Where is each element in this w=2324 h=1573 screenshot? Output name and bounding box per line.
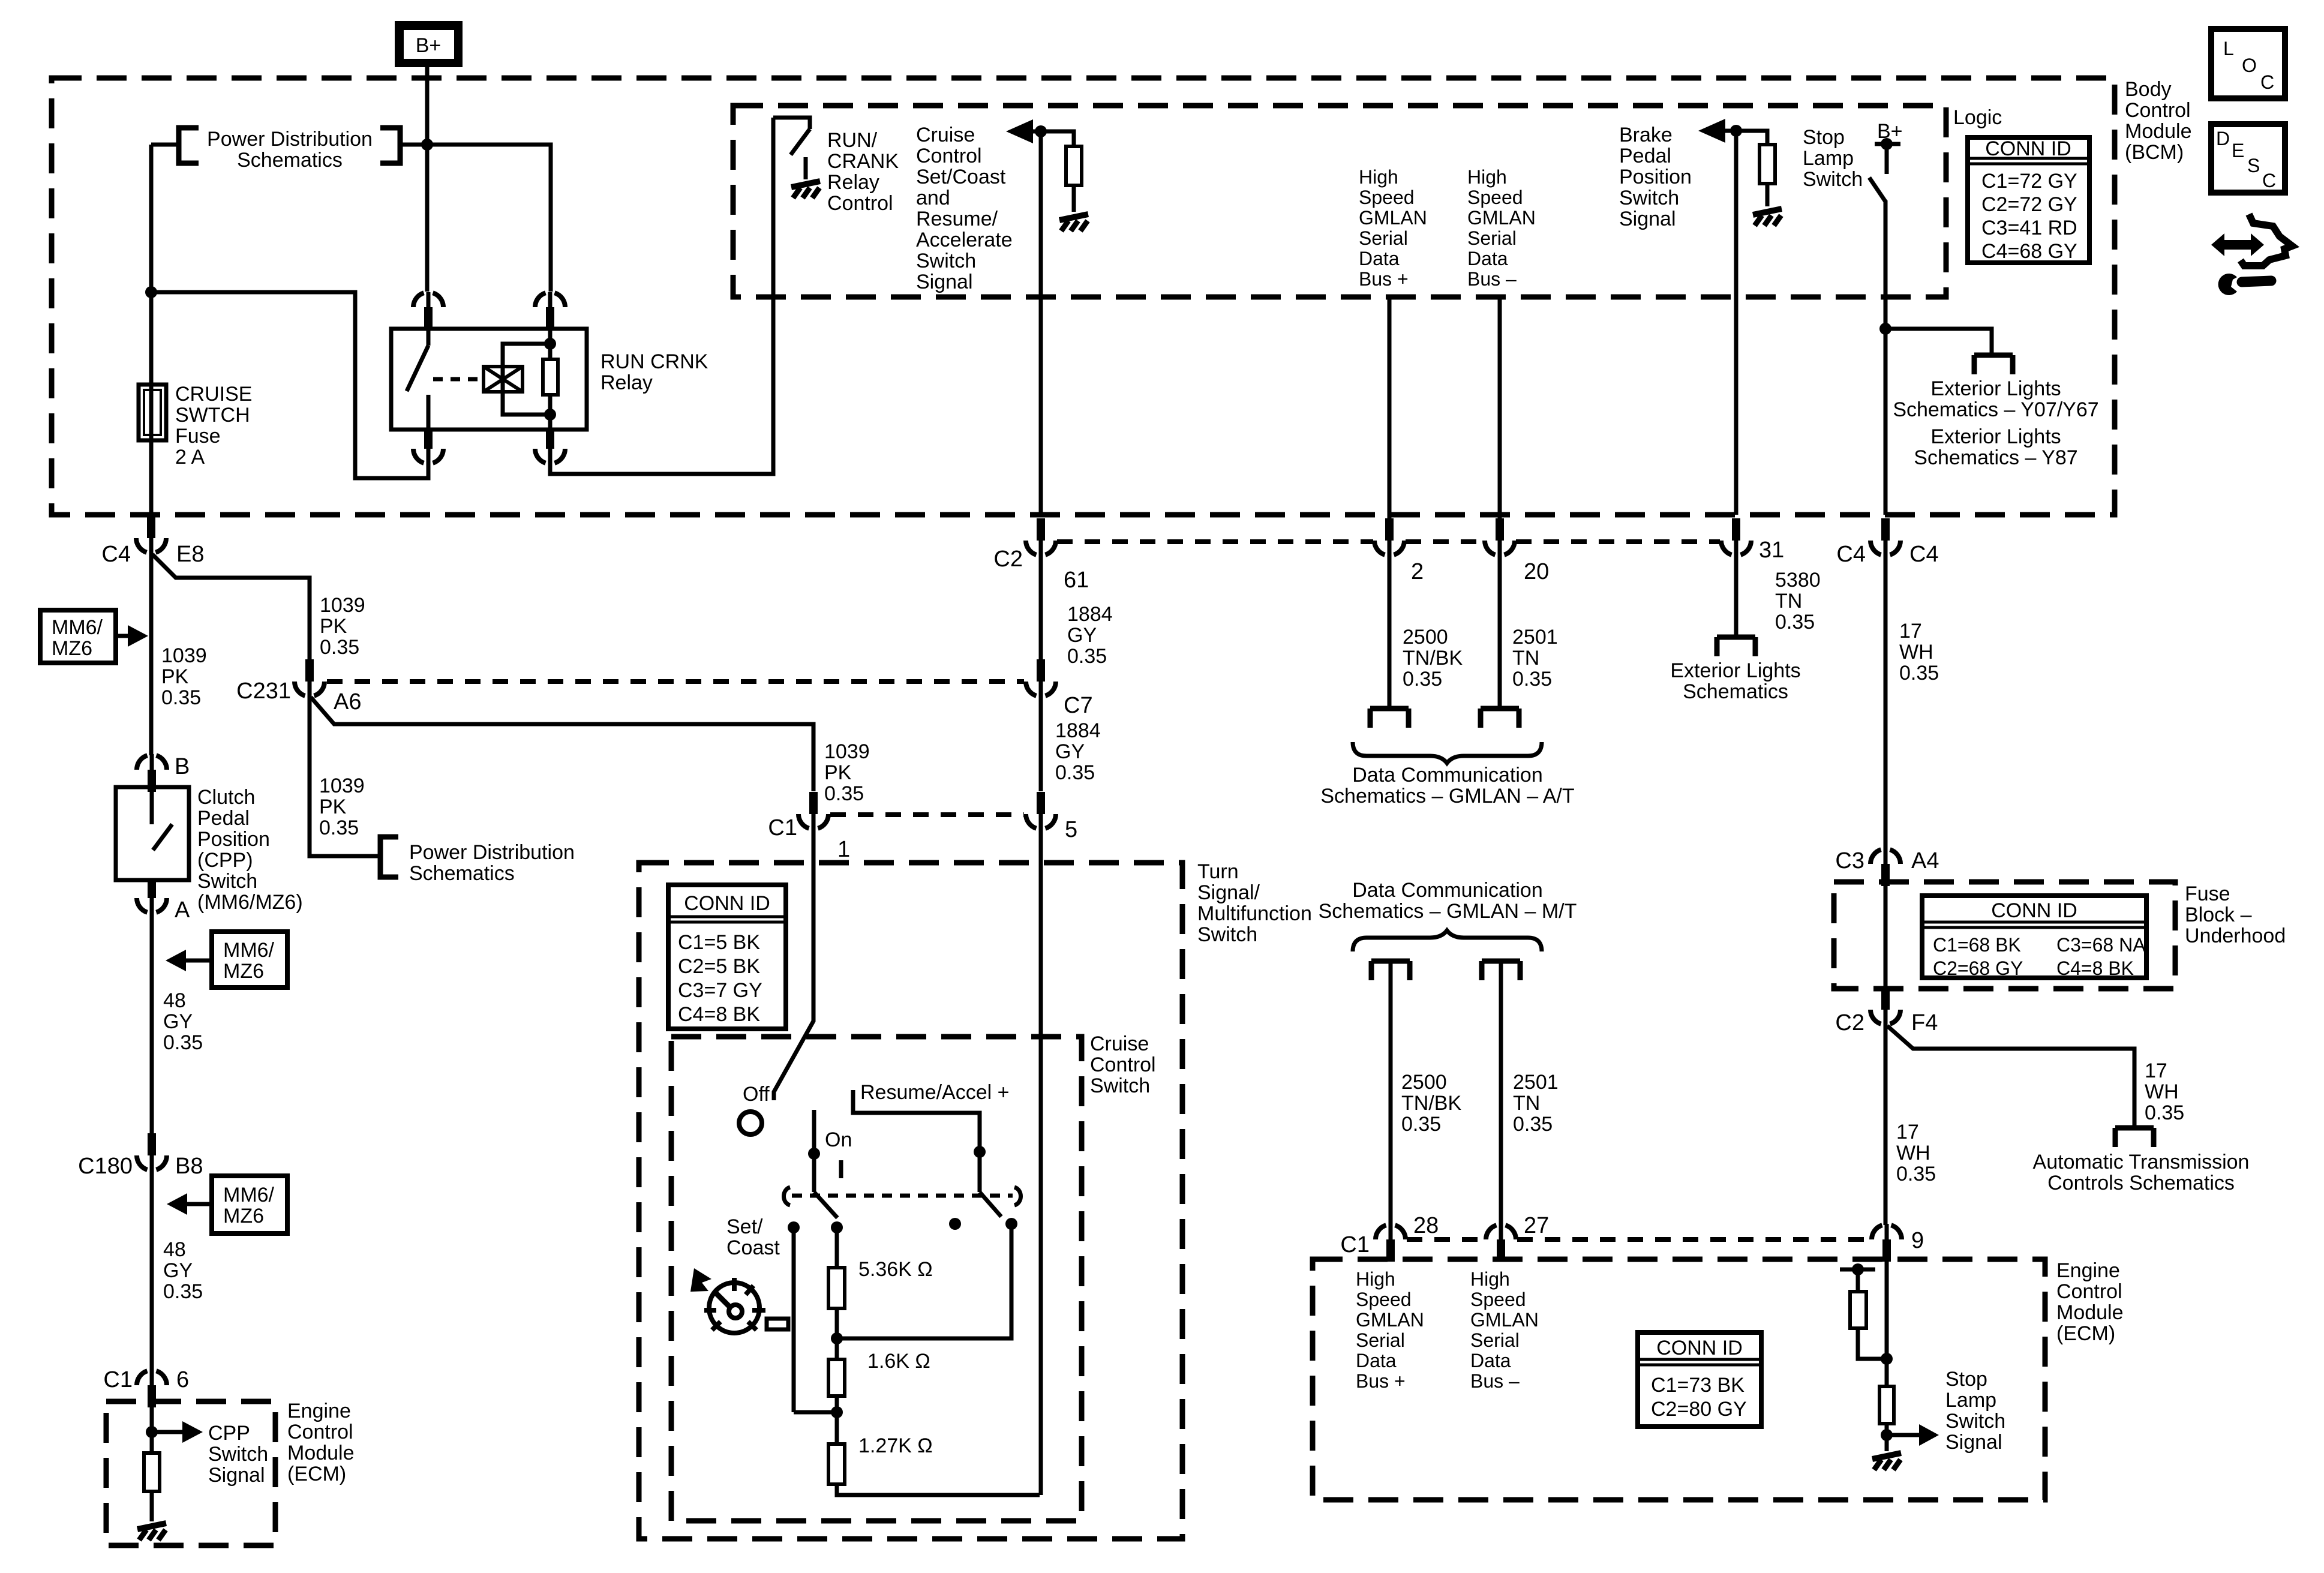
ECM CONN ID table: [1638, 1332, 1761, 1427]
connector B (CPP): [137, 754, 167, 792]
BCM outer dashed box: [52, 78, 2115, 515]
switch coupler dashed: [792, 1194, 1013, 1198]
wire C2 61 down to C7: [1039, 553, 1043, 659]
bracket exterior lights schematics: [1717, 637, 1755, 656]
svg-text:Controls Schematics: Controls Schematics: [2047, 1172, 2235, 1194]
svg-text:Serial: Serial: [1467, 227, 1517, 249]
svg-text:D: D: [2216, 128, 2230, 149]
svg-text:Exterior Lights: Exterior Lights: [1930, 377, 2061, 400]
connector row thin dashed line (BCM bottom): [1057, 539, 1720, 544]
svg-text:Cruise: Cruise: [916, 124, 975, 146]
wire 1.6K tap to right: [837, 1224, 1011, 1338]
ECM pull-up resistor: [1850, 1292, 1887, 1359]
svg-text:Logic: Logic: [1953, 106, 2002, 129]
svg-text:5: 5: [1065, 817, 1077, 842]
wire A6 diagonal to pin 1 column: [311, 697, 813, 791]
svg-text:Speed: Speed: [1467, 187, 1523, 208]
MM6/MZ6 box 1: [40, 610, 116, 663]
label Stop Lamp Switch Signal: [1945, 1368, 2005, 1454]
label Cruise Control Set/Coast and Resume/ Accelerate Switch Signal: [916, 124, 1013, 293]
svg-text:GY: GY: [163, 1010, 193, 1033]
svg-text:B8: B8: [175, 1154, 203, 1179]
wire C2 F4 down to pin 9: [1885, 1025, 1887, 1225]
junction dot 1.6K top: [831, 1332, 843, 1344]
wire Set/Coast contact down: [792, 1227, 796, 1412]
svg-text:Bus –: Bus –: [1467, 268, 1517, 290]
svg-text:and: and: [916, 187, 950, 209]
brake pedal arrow: [1698, 119, 1736, 143]
wire pin 20 down: [1498, 553, 1502, 709]
junction dot fuse column: [145, 286, 157, 298]
wire GMLAN bus + from logic box: [1388, 298, 1392, 518]
stop lamp switch signal arrow: [1887, 1424, 1939, 1446]
wire relay coil to RUN/CRANK control: [550, 118, 773, 474]
svg-text:48: 48: [163, 989, 186, 1012]
label 1039 PK 0.35 (pin1): [824, 740, 870, 805]
label 2500 TN/BK 0.35 (M/T): [1401, 1071, 1461, 1136]
svg-text:0.35: 0.35: [163, 1280, 203, 1303]
svg-text:Control: Control: [287, 1421, 353, 1443]
Resume/Accel wire: [853, 1090, 986, 1192]
relay coil box: [484, 367, 523, 392]
wire pin 5 column through cruise box: [1039, 829, 1043, 1495]
label Brake Pedal Position Switch Signal: [1619, 124, 1692, 230]
inline connector dashed C231 to C7: [327, 679, 1024, 684]
svg-text:0.35: 0.35: [1401, 1113, 1441, 1136]
svg-text:TN: TN: [1513, 1092, 1540, 1115]
svg-text:MM6/: MM6/: [223, 1184, 275, 1206]
BCM inner logic dashed box: [733, 106, 1946, 297]
svg-text:Power Distribution: Power Distribution: [409, 841, 575, 864]
svg-text:0.35: 0.35: [1067, 645, 1107, 668]
bracket right Power Distribution Schematics: [380, 128, 400, 163]
svg-text:C: C: [2262, 170, 2276, 191]
svg-text:C7: C7: [1064, 693, 1093, 718]
svg-text:1039: 1039: [161, 644, 207, 667]
label RUN CRNK Relay: [600, 350, 708, 394]
svg-text:Bus +: Bus +: [1359, 268, 1409, 290]
svg-text:O: O: [2242, 55, 2257, 76]
svg-text:1: 1: [837, 837, 850, 862]
cruise resistor ground: [1059, 214, 1088, 231]
ECM ground: [1872, 1453, 1901, 1470]
svg-text:0.35: 0.35: [161, 686, 201, 709]
svg-text:2 A: 2 A: [175, 446, 205, 469]
svg-text:Position: Position: [197, 828, 270, 851]
svg-text:RUN/: RUN/: [827, 129, 878, 152]
label Cruise Control Switch: [1090, 1032, 1156, 1097]
svg-text:Engine: Engine: [287, 1400, 351, 1422]
underbrace Data Communication A/T: [1353, 742, 1542, 763]
svg-text:Multifunction: Multifunction: [1197, 902, 1312, 925]
svg-text:Bus +: Bus +: [1356, 1370, 1406, 1392]
bracket M/T bus -: [1482, 961, 1520, 980]
svg-text:Resume/: Resume/: [916, 208, 998, 230]
svg-text:1039: 1039: [824, 740, 870, 763]
overbrace Data Communication M/T: [1353, 930, 1542, 951]
svg-text:C2: C2: [993, 547, 1023, 572]
svg-text:B: B: [175, 754, 190, 779]
svg-text:0.35: 0.35: [824, 782, 864, 805]
svg-text:CPP: CPP: [208, 1422, 250, 1445]
svg-text:C2=5 BK: C2=5 BK: [678, 955, 760, 978]
junction dot ECM: [1881, 1353, 1893, 1365]
svg-text:1884: 1884: [1067, 603, 1113, 626]
wire B8 down to C1 6: [150, 1170, 154, 1371]
wire E8 diagonal branch to C231: [152, 554, 310, 659]
wire pin1 down to Off: [774, 829, 813, 1100]
svg-text:CONN ID: CONN ID: [1991, 899, 2077, 922]
svg-text:Block –: Block –: [2185, 903, 2252, 926]
svg-text:Lamp: Lamp: [1803, 147, 1854, 170]
relay coil bracket: [503, 344, 550, 415]
label Exterior Lights Schematics Y07/Y67 Y87: [1893, 377, 2098, 469]
svg-text:Cruise: Cruise: [1090, 1032, 1149, 1055]
svg-text:Schematics – GMLAN – M/T: Schematics – GMLAN – M/T: [1319, 900, 1577, 923]
svg-text:WH: WH: [1899, 641, 1933, 664]
svg-text:6: 6: [176, 1367, 189, 1392]
svg-text:Serial: Serial: [1470, 1329, 1520, 1351]
svg-text:Module: Module: [2125, 120, 2192, 143]
connector C4 C4: [1870, 518, 1900, 556]
wire brake signal down to pin 31: [1734, 131, 1739, 515]
connector pin 31: [1721, 518, 1751, 556]
svg-text:C1: C1: [103, 1367, 133, 1392]
svg-text:Set/Coast: Set/Coast: [916, 166, 1006, 188]
gauge icon arrow: [690, 1268, 711, 1292]
relay coupler dashed link: [433, 377, 484, 382]
svg-text:C4=68 GY: C4=68 GY: [1981, 240, 2077, 263]
wire pin 9 down: [1885, 1262, 1889, 1386]
svg-text:(ECM): (ECM): [287, 1463, 346, 1485]
svg-text:Control: Control: [2125, 99, 2191, 122]
turn signal multifunction switch dashed box: [639, 863, 1182, 1539]
bracket left Power Distribution Schematics: [179, 128, 199, 163]
label 2501 TN 0.35 (A/T): [1512, 626, 1558, 691]
label Body Control Module (BCM): [2125, 78, 2192, 164]
svg-text:0.35: 0.35: [1775, 611, 1815, 634]
contact dot Set/Coast: [788, 1221, 800, 1233]
svg-text:Signal: Signal: [1945, 1431, 2002, 1454]
wire F4 branch to automatic transmission: [1887, 1026, 2134, 1128]
wire C4 down to C3 A4: [1884, 553, 1888, 849]
svg-text:MZ6: MZ6: [52, 637, 92, 660]
svg-text:Schematics – Y07/Y67: Schematics – Y07/Y67: [1893, 398, 2098, 421]
svg-text:E: E: [2232, 140, 2244, 161]
svg-text:MZ6: MZ6: [223, 1205, 264, 1227]
MM6/MZ6 box 2: [212, 932, 287, 987]
wire C7 down to pin 5: [1039, 697, 1043, 791]
svg-text:C1=68 BK: C1=68 BK: [1933, 934, 2021, 956]
svg-text:High: High: [1356, 1268, 1395, 1290]
CPP ground: [137, 1523, 166, 1540]
svg-text:Off: Off: [743, 1083, 770, 1106]
B+ power terminal box: [395, 21, 463, 67]
CPP switch contact: [152, 787, 172, 850]
relay coil resistor: [543, 329, 558, 430]
svg-text:CONN ID: CONN ID: [1656, 1337, 1743, 1359]
connector pin 27: [1486, 1224, 1516, 1262]
svg-text:CRUISE: CRUISE: [175, 383, 252, 406]
wire between resistors 1: [835, 1308, 839, 1359]
svg-text:Switch: Switch: [1197, 923, 1257, 946]
wire junction to relay switch return: [151, 292, 428, 478]
svg-text:2500: 2500: [1403, 626, 1448, 649]
resistor 1.6K: [828, 1359, 845, 1396]
svg-text:0.35: 0.35: [1513, 1113, 1553, 1136]
svg-text:CONN ID: CONN ID: [1985, 137, 2071, 160]
svg-text:C1: C1: [768, 815, 797, 840]
svg-text:Lamp: Lamp: [1945, 1389, 1996, 1412]
svg-text:Signal: Signal: [208, 1464, 265, 1487]
connector C7: [1026, 659, 1056, 697]
svg-text:17: 17: [1899, 620, 1922, 643]
brake pull-up resistor: [1736, 131, 1775, 206]
wire B+ down to relay switch pin: [425, 145, 430, 292]
brake resistor ground: [1753, 209, 1782, 226]
svg-text:Relay: Relay: [600, 371, 653, 394]
wire B+ down to junction: [425, 67, 430, 145]
label Turn Signal/ Multifunction Switch: [1197, 860, 1312, 946]
svg-text:CONN ID: CONN ID: [684, 892, 770, 915]
svg-text:Pedal: Pedal: [197, 807, 250, 830]
svg-text:GY: GY: [1067, 624, 1097, 647]
svg-text:Switch: Switch: [1803, 168, 1863, 191]
bracket exterior lights: [1974, 355, 2013, 374]
wire inside ECM left: [150, 1407, 154, 1453]
svg-text:Switch: Switch: [208, 1443, 268, 1466]
svg-text:0.35: 0.35: [319, 816, 359, 839]
ECM internal supply rail: [1840, 1263, 1875, 1292]
label Automatic Transmission Controls Schematics: [2033, 1151, 2250, 1194]
cruise control switch dashed box: [671, 1037, 1082, 1521]
svg-text:31: 31: [1759, 538, 1784, 563]
svg-text:Underhood: Underhood: [2185, 924, 2286, 947]
wire between resistors 2: [835, 1396, 839, 1444]
label 1039 PK 0.35 (A6 lower): [319, 775, 365, 839]
coupler end curl right: [1014, 1187, 1021, 1205]
svg-text:Switch: Switch: [1090, 1074, 1150, 1097]
svg-text:Switch: Switch: [197, 870, 257, 893]
svg-text:Set/: Set/: [726, 1215, 763, 1238]
label High Speed GMLAN Serial Data Bus + (ECM): [1356, 1268, 1424, 1392]
svg-text:MM6/: MM6/: [52, 616, 103, 639]
svg-text:Clutch: Clutch: [197, 786, 255, 809]
svg-text:Bus –: Bus –: [1470, 1370, 1520, 1392]
svg-text:Schematics: Schematics: [1683, 680, 1788, 703]
svg-text:Switch: Switch: [1619, 187, 1679, 209]
relay switch contact: [407, 329, 428, 430]
svg-text:2501: 2501: [1512, 626, 1558, 649]
wire cruise signal down to C2 61: [1039, 131, 1043, 515]
Data Communication M/T labels: [1319, 879, 1577, 923]
connector C180 B8: [137, 1133, 167, 1171]
label 1039 PK 0.35 (C231 upper): [320, 594, 365, 659]
wire pin 31 down to exterior lights: [1734, 553, 1739, 637]
bracket power distribution 2: [380, 837, 398, 877]
wire A down to C180: [150, 912, 154, 1135]
svg-text:(MM6/MZ6): (MM6/MZ6): [197, 891, 303, 914]
svg-text:9: 9: [1911, 1228, 1924, 1253]
svg-text:Serial: Serial: [1356, 1329, 1405, 1351]
On switch blade: [814, 1192, 837, 1218]
svg-text:C231: C231: [236, 679, 291, 704]
wire A6 down to power distribution: [310, 697, 380, 856]
junction dot at B+ feed: [421, 139, 433, 151]
wire GMLAN bus - from logic box: [1498, 298, 1502, 518]
svg-text:1.6K Ω: 1.6K Ω: [867, 1350, 930, 1373]
svg-text:GMLAN: GMLAN: [1470, 1309, 1539, 1331]
svg-text:GMLAN: GMLAN: [1356, 1309, 1424, 1331]
svg-text:5.36K Ω: 5.36K Ω: [858, 1258, 933, 1281]
svg-text:Data: Data: [1356, 1350, 1397, 1371]
label 5380 TN 0.35: [1775, 569, 1821, 634]
DESC box: [2211, 124, 2285, 193]
contact dot resistor chain top: [831, 1221, 843, 1233]
label High Speed GMLAN Serial Data Bus + (BCM): [1359, 166, 1427, 290]
label 2500 TN/BK 0.35 (A/T): [1403, 626, 1463, 691]
junction dot brake signal: [1730, 125, 1742, 137]
svg-text:Schematics – GMLAN – A/T: Schematics – GMLAN – A/T: [1320, 785, 1574, 807]
MM6/MZ6 box 3: [212, 1176, 287, 1233]
wire through fuse down to C4 E8: [149, 292, 154, 515]
connector C2 F4: [1870, 987, 1900, 1025]
CPP switch signal arrow: [152, 1421, 203, 1443]
wire exterior lights branch: [1885, 329, 1992, 355]
label 1884 GY 0.35 (lower): [1055, 719, 1101, 784]
cruise pull-up resistor: [1041, 131, 1082, 212]
svg-text:Switch: Switch: [916, 250, 976, 272]
svg-text:(ECM): (ECM): [2056, 1322, 2115, 1345]
wire pin 2 down: [1388, 553, 1392, 709]
svg-text:48: 48: [163, 1238, 186, 1261]
connector C231 A6: [295, 659, 325, 697]
svg-text:C2=68 GY: C2=68 GY: [1933, 957, 2023, 979]
svg-text:C2: C2: [1835, 1010, 1864, 1035]
svg-text:(BCM): (BCM): [2125, 141, 2184, 164]
svg-text:20: 20: [1524, 559, 1549, 584]
label Set/ Coast: [726, 1215, 780, 1259]
Off contact circle: [739, 1112, 762, 1134]
svg-text:1.27K Ω: 1.27K Ω: [858, 1434, 933, 1457]
svg-text:WH: WH: [2145, 1080, 2179, 1103]
label High Speed GMLAN Serial Data Bus - (ECM): [1470, 1268, 1539, 1392]
connector pin 28: [1376, 1224, 1406, 1262]
label Power Distribution Schematics 2: [409, 841, 575, 885]
svg-text:Brake: Brake: [1619, 124, 1673, 146]
svg-text:Switch: Switch: [1945, 1410, 2005, 1433]
bracket A/T bus +: [1370, 709, 1409, 728]
svg-text:Fuse: Fuse: [2185, 882, 2230, 905]
svg-text:C1=72 GY: C1=72 GY: [1981, 170, 2077, 193]
resistor 1.27K: [828, 1444, 845, 1484]
label Power Distribution Schematics: [207, 128, 373, 172]
svg-text:1039: 1039: [319, 775, 365, 797]
svg-text:C3: C3: [1835, 848, 1864, 873]
wire set/coast bottom rail: [794, 1410, 837, 1415]
svg-text:High: High: [1467, 166, 1507, 188]
label High Speed GMLAN Serial Data Bus - (BCM): [1467, 166, 1536, 290]
svg-text:Signal: Signal: [1619, 208, 1676, 230]
svg-text:Turn: Turn: [1197, 860, 1239, 883]
label Fuse Block Underhood: [2185, 882, 2286, 947]
svg-text:GMLAN: GMLAN: [1359, 207, 1427, 229]
svg-text:2: 2: [1411, 559, 1424, 584]
RUN/CRANK control ground: [791, 157, 820, 198]
connector pin 9: [1872, 1224, 1902, 1262]
svg-text:Relay: Relay: [827, 171, 879, 194]
svg-text:C4=8 BK: C4=8 BK: [2056, 957, 2134, 979]
contact dot resume right: [1005, 1218, 1017, 1230]
svg-text:C4: C4: [1909, 542, 1939, 567]
svg-text:B+: B+: [416, 34, 442, 57]
svg-text:Data Communication: Data Communication: [1352, 764, 1542, 786]
svg-text:On: On: [825, 1128, 852, 1151]
svg-text:GMLAN: GMLAN: [1467, 207, 1536, 229]
connector C3 A4: [1870, 848, 1900, 886]
bracket A/T bus -: [1481, 709, 1519, 728]
relay upper pin connector right: [535, 292, 565, 329]
connector C4 E8: [136, 516, 166, 554]
svg-text:Exterior Lights: Exterior Lights: [1930, 425, 2061, 448]
svg-text:Control: Control: [827, 192, 893, 215]
label 48 GY 0.35 (lower): [163, 1238, 203, 1303]
svg-text:(CPP): (CPP): [197, 849, 253, 872]
svg-text:Control: Control: [2056, 1280, 2122, 1303]
label Engine Control Module (ECM) right: [2056, 1259, 2124, 1345]
svg-text:PK: PK: [824, 761, 852, 784]
fuse block CONN ID table: [1922, 896, 2146, 979]
svg-text:TN: TN: [1775, 590, 1802, 613]
svg-text:C3=41 RD: C3=41 RD: [1981, 217, 2077, 239]
svg-text:0.35: 0.35: [1512, 668, 1552, 691]
svg-text:Module: Module: [2056, 1301, 2124, 1324]
label 17 WH 0.35 (upper): [1899, 620, 1939, 685]
label CPP Switch Signal: [208, 1422, 268, 1487]
label 2501 TN 0.35 (M/T): [1513, 1071, 1559, 1136]
coupler end curl left: [784, 1187, 791, 1205]
contact dot resume open: [949, 1218, 961, 1230]
svg-text:Data Communication: Data Communication: [1352, 879, 1542, 902]
svg-text:Position: Position: [1619, 166, 1692, 188]
svg-text:Data: Data: [1467, 248, 1508, 269]
service icon arrow wrench: [2211, 214, 2292, 295]
svg-text:C2=80 GY: C2=80 GY: [1651, 1398, 1747, 1421]
MM6 arrow left 3: [167, 1193, 212, 1215]
connector pin 5: [1026, 792, 1056, 830]
wire junction to relay coil branch: [427, 145, 551, 292]
relay upper pin connector left: [413, 292, 443, 329]
svg-text:0.35: 0.35: [163, 1031, 203, 1054]
svg-text:2500: 2500: [1401, 1071, 1447, 1094]
svg-text:1039: 1039: [320, 594, 365, 617]
stop lamp switch blade: [1869, 178, 1885, 202]
svg-text:0.35: 0.35: [1899, 662, 1939, 685]
svg-text:Control: Control: [916, 145, 982, 167]
svg-text:L: L: [2223, 38, 2234, 59]
svg-text:17: 17: [2145, 1059, 2167, 1082]
svg-text:High: High: [1470, 1268, 1510, 1290]
wire E8 down to CPP B: [149, 553, 154, 755]
svg-text:TN: TN: [1512, 647, 1539, 670]
label 17 WH 0.35 (branch): [2145, 1059, 2184, 1124]
label RUN/ CRANK Relay Control: [827, 129, 899, 215]
inline connector dashed pin1 to pin5: [830, 812, 1024, 817]
relay lower pin connector left: [413, 430, 443, 464]
connector C2 61: [1026, 518, 1056, 556]
svg-text:MZ6: MZ6: [223, 960, 264, 983]
CPP switch box: [116, 787, 189, 880]
